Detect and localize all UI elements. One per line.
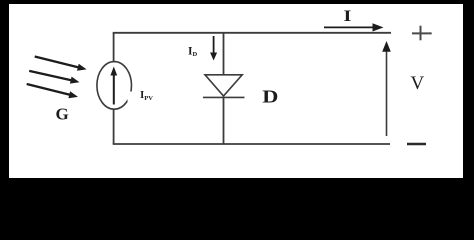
voltage arrow V (382, 41, 391, 136)
current source IPV (97, 62, 134, 110)
irradiance arrow G2 (29, 71, 79, 84)
current arrow ID (210, 36, 217, 61)
terminal minus (407, 143, 426, 145)
wire diode top (223, 33, 225, 75)
wire diode bottom (223, 97, 225, 144)
svg-text:G: G (56, 105, 69, 124)
wire top (113, 32, 391, 34)
terminal plus (412, 26, 432, 41)
irradiance arrow G1 (35, 57, 87, 71)
wire bottom (113, 143, 390, 145)
diode D (203, 75, 245, 98)
irradiance arrow G3 (27, 84, 78, 98)
white canvas (9, 4, 463, 178)
svg-text:I: I (344, 7, 352, 24)
svg-text:D: D (262, 87, 278, 107)
wire source top (113, 33, 115, 63)
wire source bottom (113, 109, 115, 145)
current arrow I (324, 23, 384, 31)
svg-text:V: V (411, 73, 425, 94)
